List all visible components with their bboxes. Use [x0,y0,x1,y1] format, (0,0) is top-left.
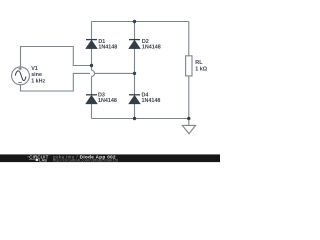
svg-text:LAB: LAB [39,158,47,162]
V1 minus mark [18,82,21,84]
node left bridge midpoint [90,64,93,67]
label D1 [98,39,117,50]
svg-text:V1: V1 [31,66,38,72]
svg-text:1N4148: 1N4148 [98,98,117,104]
svg-text:1N4148: 1N4148 [142,98,161,104]
wire bottom rail [92,118,189,120]
wire right column upper [134,22,136,40]
label D2 [142,39,161,50]
V1 plus mark [19,67,22,70]
wire RL column upper [188,22,190,56]
wire left column mid [91,48,93,70]
svg-text:htp://circuitlab.com/c8fa8c93q: htp://circuitlab.com/c8fa8c93qk15j [53,157,118,162]
wire RL column lower [188,76,190,119]
wire left column upper [91,22,93,40]
label D3 [98,93,117,104]
wire node A : V1 plus to left bridge node [21,47,92,67]
diode D4 [129,95,140,104]
node junction dots [90,20,191,120]
svg-text:1N4148: 1N4148 [98,44,117,50]
ground [182,119,195,134]
node right bridge midpoint [133,72,136,75]
wire left column to bottom rail [91,104,93,119]
svg-text:sine: sine [31,72,42,78]
wire right column mid [134,49,136,95]
svg-text:1N4148: 1N4148 [142,44,161,50]
wire hop over crossing [92,70,95,76]
diode D2 [129,40,140,49]
wire top rail [92,21,189,23]
node bottom rail / D4 [133,117,136,120]
diode D1 [86,40,97,49]
svg-text:RL: RL [195,60,203,66]
resistor RL [186,56,192,76]
CircuitLab logo [27,155,48,163]
footer caption text [53,154,118,162]
V1 sine glyph [15,71,25,81]
node bottom rail / ground tap [187,117,190,120]
svg-text:1 kHz: 1 kHz [31,79,45,85]
label D4 [142,93,161,104]
label RL [195,60,207,72]
node top rail / D2 [133,20,136,23]
wire left column lower [91,77,93,95]
wire node B : V1 minus to right bridge node (left part) [21,73,91,91]
diode D3 [86,95,97,104]
label V1 [31,66,45,85]
footer bar [0,154,220,162]
wire right column to bottom rail [134,104,136,119]
svg-text:1 kΩ: 1 kΩ [195,67,207,73]
wire node B right part after hop [95,72,135,74]
voltage source V1 [12,67,30,85]
